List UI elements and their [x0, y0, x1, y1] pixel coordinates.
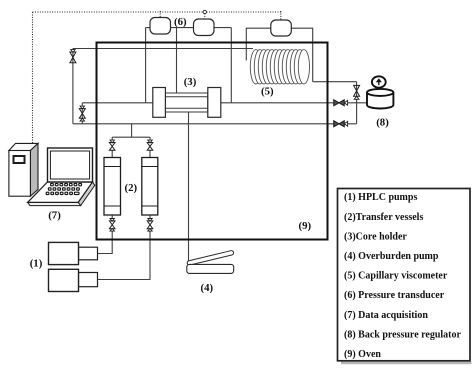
HPLC pump 1 (1) [49, 242, 98, 264]
computer tower (7) [9, 143, 38, 196]
svg-text:(5) Capillary viscometer: (5) Capillary viscometer [344, 271, 448, 282]
valve vessel-1 bottom [109, 221, 115, 229]
wire: dotted drop to transducer T2 [204, 11, 206, 20]
pressure transducer U3 (6) [271, 20, 292, 36]
svg-text:(3): (3) [184, 76, 197, 88]
wire: transducer manifold line [146, 27, 232, 29]
overburden pump (4) [187, 250, 234, 273]
wire: transfer-vessel header [112, 136, 150, 138]
valve vessel-2 top [147, 143, 153, 151]
svg-text:(7) Data acquisition: (7) Data acquisition [344, 310, 428, 321]
wire: valve V1 inlet line (y=48.5) into viscometer coil [73, 48, 253, 50]
valve V3 (vertical, right column) [354, 85, 360, 96]
legend box frame [338, 189, 471, 361]
arrow into valve V2 [80, 106, 84, 109]
wire: header stub to vessel 2 valve [149, 137, 151, 143]
valve V4 (horizontal, regulator line) [334, 100, 344, 106]
oven (9) boundary [97, 43, 328, 240]
arrow into valve V5 [344, 121, 347, 126]
legend box drop shadow [341, 362, 472, 365]
capillary viscometer coil (5) [250, 50, 309, 84]
arrow into valve V1 [71, 50, 75, 53]
wire: coil outlet line to right valve column [313, 81, 357, 83]
svg-text:(1): (1) [30, 258, 43, 270]
svg-text:(8): (8) [376, 116, 389, 128]
wire: transfer-vessel feed drop [131, 124, 133, 137]
wire: vessel 1 top valve to vessel [111, 151, 113, 158]
arrow from pump 2 into vessel 2 [148, 228, 152, 231]
wire: vessel 1 bottom to valve [111, 215, 113, 221]
wire: dotted drop to transducer T1 [159, 11, 161, 18]
node: junction marker on dotted bus [203, 10, 206, 13]
wire: core outlet line to back pressure regulator [221, 102, 367, 104]
svg-text:(2)Transfer vessels: (2)Transfer vessels [344, 212, 423, 223]
svg-text:(6): (6) [174, 16, 187, 28]
svg-text:(1) HPLC pumps: (1) HPLC pumps [344, 192, 417, 203]
transfer vessel 1 (2) [104, 158, 121, 216]
svg-text:(9) Oven: (9) Oven [344, 349, 381, 360]
pressure gauge on regulator [372, 76, 386, 90]
wire: vessel 2 bottom to valve [149, 215, 151, 221]
wire: header stub to vessel 1 valve [111, 137, 113, 143]
svg-text:(2): (2) [125, 182, 138, 194]
wire: dotted drop to computer tower [32, 12, 34, 143]
wire: dotted data-acquisition bus (horizontal) [33, 11, 282, 13]
wire: transducer T3 right tap / coil outlet [291, 28, 313, 81]
wire: pressure tap to core holder top [176, 28, 178, 94]
valve V5 (horizontal, bypass line) [334, 121, 344, 127]
arrow into valve V3 [354, 96, 359, 99]
valve V2 (vertical, bypass) [79, 109, 85, 119]
wire: core holder to overburden pump [188, 112, 190, 264]
arrow into vessel-2 bottom valve [148, 219, 152, 222]
arrow into valve V4 [344, 100, 347, 105]
pressure transducer U1 (6) [150, 18, 171, 35]
wire: pressure tap to core outlet [230, 28, 232, 103]
valve vessel-1 top [109, 143, 115, 151]
valve V1 (vertical, inlet line) [70, 52, 76, 63]
wire: pump 2 discharge line [98, 229, 151, 280]
svg-text:(3)Core holder: (3)Core holder [344, 231, 407, 242]
wire: pressure tap to core inlet [145, 28, 147, 103]
core holder (3) [153, 88, 221, 118]
svg-text:(5): (5) [261, 85, 274, 97]
wire: bypass line (y=123.8) [73, 123, 357, 125]
valve vessel-2 bottom [147, 221, 153, 229]
wire: right valve column vertical [356, 82, 358, 124]
svg-text:(4) Overburden pump: (4) Overburden pump [344, 251, 439, 262]
svg-text:(7): (7) [48, 209, 61, 221]
arrow from pump 1 into vessel 1 [110, 228, 114, 231]
svg-text:(6) Pressure transducer: (6) Pressure transducer [344, 290, 445, 301]
svg-text:(9): (9) [299, 220, 312, 232]
laptop computer (7) [28, 148, 95, 206]
svg-text:(8) Back pressure regulator: (8) Back pressure regulator [344, 329, 461, 340]
back pressure regulator (8) cylinder [367, 89, 393, 109]
wire: core inlet line [82, 102, 153, 104]
wire: transducer T3 left tap [246, 28, 271, 60]
transfer vessel 2 (2) [142, 158, 158, 216]
arrow out of valve V2 [80, 118, 84, 121]
HPLC pump 2 (1) [49, 269, 98, 291]
wire: pump 1 discharge line [98, 229, 113, 254]
wire: vessel 2 top valve to vessel [149, 151, 151, 158]
svg-text:(4): (4) [201, 282, 214, 294]
arrow into vessel-1 top valve [110, 140, 114, 143]
pressure transducer U2 (6) [194, 19, 215, 36]
wire: stub through valve V2 [81, 103, 83, 124]
wire: dotted drop to transducer T3 [280, 11, 282, 21]
arrow into vessel-1 bottom valve [110, 219, 114, 222]
wire: vertical line through valve V1 [72, 49, 74, 124]
arrow into vessel-2 top valve [148, 140, 152, 143]
